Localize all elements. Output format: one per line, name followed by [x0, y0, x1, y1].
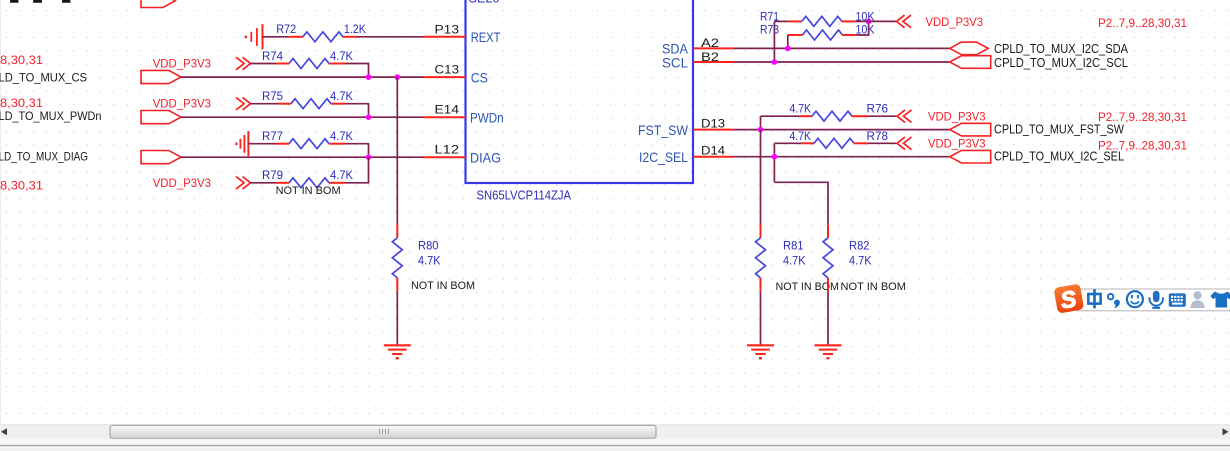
junction (R74/CS)	[366, 74, 372, 80]
junction (R71/SCL)	[772, 59, 778, 65]
wire R72 to pin P13	[356, 36, 424, 38]
resistor R74 4.7K	[251, 49, 354, 69]
window left edge	[0, 0, 2, 424]
junction (R77/R79/DIAG)	[366, 154, 372, 160]
resistor R73 10K	[760, 23, 875, 40]
pin CS C13	[424, 63, 488, 86]
junction (R75/PWDn)	[366, 114, 372, 120]
svg-text:CPLD_TO_MUX_FST_SW: CPLD_TO_MUX_FST_SW	[994, 123, 1124, 137]
wire SCL net	[734, 61, 950, 63]
svg-text:R73: R73	[760, 23, 779, 37]
wire R81 to ground	[760, 291, 762, 345]
wire R75 right corner down to PWDn net	[345, 104, 369, 118]
svg-text:R76: R76	[867, 102, 889, 116]
svg-text:8,30,31: 8,30,31	[0, 53, 43, 67]
pin FST_SW D13	[638, 116, 734, 138]
wire R73 left leg down to SDA net	[787, 35, 789, 48]
wire R79 right corner up to DIAG net	[345, 157, 369, 183]
wire R76 left leg down to D13 net	[760, 116, 762, 129]
sogou icon: keyboard	[1169, 293, 1186, 306]
svg-text:4.7K: 4.7K	[330, 129, 353, 143]
sogou logo	[1054, 283, 1085, 314]
sogou icon: account (gray person)	[1190, 291, 1204, 308]
svg-text:NOT IN BOM: NOT IN BOM	[841, 281, 907, 293]
wire D13 branch down to R81	[760, 130, 762, 225]
svg-text:D13: D13	[701, 116, 725, 130]
wire D13 net	[734, 129, 950, 131]
svg-text:VDD_P3V3: VDD_P3V3	[928, 137, 986, 151]
svg-text:4.7K: 4.7K	[790, 129, 812, 143]
svg-text:FST_SW: FST_SW	[638, 122, 689, 138]
power port VDD_P3V3 (R76 row)	[897, 110, 986, 124]
scrollbar right arrow	[1223, 428, 1229, 435]
power port VDD_P3V3 (R78 row)	[897, 137, 986, 151]
wire CS branch down to R80	[396, 77, 398, 224]
svg-text:NOT IN BOM: NOT IN BOM	[776, 281, 840, 293]
ground GND2 (rotated, at R77 left)	[236, 131, 248, 156]
sogou icon: skin (t-shirt)	[1210, 291, 1230, 307]
svg-text:NOT IN BOM: NOT IN BOM	[411, 280, 475, 292]
svg-text:C13: C13	[435, 63, 460, 77]
wire R71 right to power arrow	[856, 20, 897, 22]
svg-text:VDD_P3V3: VDD_P3V3	[928, 110, 986, 124]
wire D14 branch jog to R82	[774, 182, 828, 224]
wire R78 left leg / D14 branch vertical	[773, 143, 775, 182]
power port VDD_P3V3 (R79 row)	[153, 176, 251, 190]
svg-text:E14: E14	[435, 103, 460, 117]
svg-text:4.7K: 4.7K	[330, 168, 353, 182]
resistor R77 4.7K	[248, 129, 353, 149]
svg-text:R74: R74	[262, 49, 283, 63]
sogou icon: emoji smiley	[1127, 291, 1143, 307]
svg-text:DIAG: DIAG	[470, 150, 501, 166]
ground GND5 (below R82)	[815, 345, 842, 358]
power port VDD_P3V3 (R71 row)	[897, 15, 984, 29]
wire R82 to ground	[827, 291, 829, 345]
resistor R71 10K	[760, 9, 875, 26]
port CPLD_TO_MUX_I2C_SEL	[950, 150, 991, 163]
port CPLD_TO_MUX_I2C_SDA	[950, 42, 988, 55]
wire R74 right corner down to CS net	[345, 64, 369, 78]
resistor R75 4.7K	[251, 89, 354, 109]
pin I2C_SEL D14	[639, 143, 734, 165]
svg-text:LD_TO_MUX_CS: LD_TO_MUX_CS	[0, 70, 87, 84]
port CPLD_TO_MUX_CS	[141, 70, 181, 83]
wire R77 right corner down to DIAG net	[345, 144, 369, 158]
svg-text:CS: CS	[471, 69, 488, 85]
sogou toolbar panel	[1077, 289, 1230, 311]
wire D14 net	[734, 156, 950, 158]
port (cut off at top edge)	[141, 0, 175, 8]
resistor R72 1.2K	[263, 22, 366, 42]
wire R71 left leg down to SCL net	[773, 21, 775, 62]
svg-text:LD_TO_MUX_DIAG: LD_TO_MUX_DIAG	[0, 149, 88, 163]
svg-text:NOT IN BOM: NOT IN BOM	[276, 185, 341, 197]
svg-text:VDD_P3V3: VDD_P3V3	[926, 15, 984, 29]
svg-text:LD_TO_MUX_PWDn: LD_TO_MUX_PWDn	[0, 109, 102, 123]
port CPLD_TO_MUX_FST_SW	[950, 123, 991, 136]
svg-text:P13: P13	[435, 22, 460, 36]
svg-text:I2C_SEL: I2C_SEL	[639, 149, 688, 165]
wire CS net	[181, 76, 424, 78]
wire SDA net	[734, 47, 950, 49]
svg-text:CPLD_TO_MUX_I2C_SDA: CPLD_TO_MUX_I2C_SDA	[994, 42, 1129, 56]
svg-text:L12: L12	[435, 143, 460, 157]
wire PWDn net	[181, 116, 424, 118]
svg-text:A2: A2	[701, 36, 719, 50]
svg-text:B2: B2	[701, 50, 719, 64]
svg-text:R75: R75	[262, 89, 283, 103]
svg-text:4.7K: 4.7K	[330, 49, 353, 63]
svg-text:4.7K: 4.7K	[330, 89, 353, 103]
svg-text:R72: R72	[276, 22, 296, 36]
pin REXT P13	[424, 22, 501, 45]
svg-text:R79: R79	[262, 168, 283, 182]
port CPLD_TO_MUX_I2C_SCL	[950, 56, 991, 69]
junction (R78/D14/R82)	[772, 154, 778, 160]
svg-text:4.7K: 4.7K	[418, 254, 441, 268]
scrollbar left arrow	[1, 428, 7, 435]
svg-text:CPLD_TO_MUX_I2C_SEL: CPLD_TO_MUX_I2C_SEL	[994, 150, 1124, 164]
wire R73 right leg up to R71 net	[856, 21, 869, 35]
svg-text:R71: R71	[760, 9, 779, 23]
wire R80 to ground	[396, 291, 398, 345]
port CPLD_TO_MUX_PWDn	[141, 111, 181, 124]
junction (R76/D13/R81)	[758, 127, 764, 133]
svg-text:VDD_P3V3: VDD_P3V3	[153, 176, 212, 190]
wire R76 right to power arrow	[868, 115, 897, 117]
svg-text:P2..7,9..28,30,31: P2..7,9..28,30,31	[1098, 16, 1187, 30]
ground GND3 (below R80)	[384, 345, 411, 358]
svg-text:SN65LVCP114ZJA: SN65LVCP114ZJA	[477, 188, 572, 203]
svg-text:1.2K: 1.2K	[344, 22, 366, 36]
port CPLD_TO_MUX_DIAG	[141, 151, 181, 164]
pin SCL B2	[662, 50, 734, 70]
op-amp U? chip body SN65LVCP114	[466, 0, 694, 183]
net label remnant (underscores of cut-off label)	[10, 0, 71, 3]
svg-text:R77: R77	[262, 129, 283, 143]
svg-text:REXT: REXT	[471, 29, 501, 45]
svg-text:VDD_P3V3: VDD_P3V3	[153, 57, 212, 71]
wire R78 right to power arrow	[868, 142, 897, 144]
horizontal scrollbar track	[0, 425, 1230, 439]
svg-text:4.7K: 4.7K	[783, 254, 806, 268]
svg-text:8,30,31: 8,30,31	[0, 96, 43, 110]
resistor R80 4.7K NOT IN BOM	[392, 224, 475, 291]
svg-text:CPLD_TO_MUX_I2C_SCL: CPLD_TO_MUX_I2C_SCL	[994, 56, 1128, 70]
junction (R73/SDA)	[785, 46, 791, 52]
svg-text:VDD_P3V3: VDD_P3V3	[153, 97, 212, 111]
junction (CS/R80 branch)	[395, 74, 401, 80]
scrollbar thumb	[110, 425, 656, 438]
svg-text:R78: R78	[867, 129, 889, 143]
svg-text:4.7K: 4.7K	[790, 102, 812, 116]
sogou icon: chinese mode (zhong)	[1088, 289, 1100, 308]
svg-text:R82: R82	[849, 239, 870, 253]
pin SDA A2	[662, 36, 734, 57]
svg-text:8,30,31: 8,30,31	[0, 179, 43, 193]
svg-text:R81: R81	[783, 239, 804, 253]
svg-text:D14: D14	[701, 143, 725, 157]
pin PWDn E14	[424, 103, 504, 126]
svg-text:PWDn: PWDn	[470, 110, 504, 126]
ground GND4 (below R81)	[747, 345, 774, 358]
resistor R81 4.7K NOT IN BOM	[756, 224, 840, 293]
power port VDD_P3V3 (R75 row)	[153, 97, 251, 111]
resistor R78 4.7K	[774, 129, 888, 149]
svg-text:R80: R80	[418, 239, 439, 253]
resistor R79 4.7K NOT IN BOM	[251, 168, 354, 197]
power port VDD_P3V3 (R74 row)	[153, 57, 251, 71]
ground GND1 (rotated, at R72 left)	[246, 24, 263, 49]
svg-text:SEL0: SEL0	[469, 0, 500, 5]
junction (R71/R73 right)	[866, 19, 872, 25]
sogou icon: punctuation mode	[1108, 294, 1120, 308]
svg-text:SCL: SCL	[662, 54, 688, 70]
wire DIAG net	[181, 156, 424, 158]
sogou icon: microphone	[1150, 291, 1163, 308]
status bar strip	[0, 439, 1230, 451]
resistor R82 4.7K NOT IN BOM	[823, 224, 906, 293]
pin DIAG L12	[424, 143, 501, 166]
resistor R76 4.7K	[761, 102, 889, 122]
svg-text:4.7K: 4.7K	[849, 254, 872, 268]
